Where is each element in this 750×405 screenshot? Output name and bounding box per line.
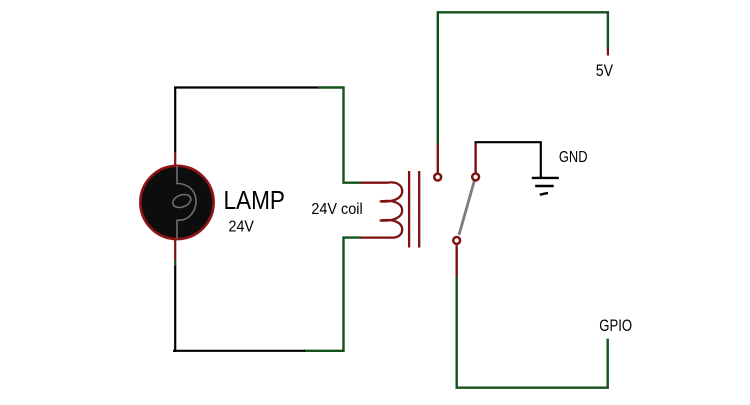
wire: red stub below lamp bbox=[174, 239, 176, 261]
switch pole contact (left, to 5V) bbox=[434, 174, 441, 181]
relay core line 1 bbox=[408, 171, 410, 248]
relay core line 2 bbox=[418, 171, 420, 248]
wire: left vertical below lamp (black) bbox=[174, 266, 176, 352]
lamp filament curl bbox=[171, 192, 193, 210]
svg-text:LAMP: LAMP bbox=[224, 185, 286, 215]
wire: red from switch right pole up bbox=[474, 143, 476, 173]
wire: lamp loop bottom horizontal (black) bbox=[173, 350, 305, 352]
ground bar 2 bbox=[535, 185, 554, 187]
wire: GPIO green run (down, across, up) bbox=[457, 277, 608, 388]
wire: left vertical above lamp (black) bbox=[174, 87, 176, 153]
svg-text:24V: 24V bbox=[229, 219, 255, 236]
wire: 5V green run (up, across, down) bbox=[438, 12, 608, 143]
wire: 5V red stub bbox=[607, 48, 609, 56]
wire: red from 5V down to switch left pole bbox=[437, 143, 439, 173]
lamp LA1 body bbox=[140, 166, 213, 239]
wire: coil bottom to loop bottom-right (green) bbox=[304, 238, 362, 351]
wire: lamp loop top horizontal (black) bbox=[174, 86, 319, 88]
switch bottom contact (to GPIO) bbox=[453, 237, 460, 244]
wire: red from switch bottom contact down bbox=[456, 245, 458, 277]
relay coil L1 (red scallops) bbox=[361, 182, 403, 237]
svg-text:GND: GND bbox=[559, 149, 588, 166]
lamp filament bbox=[177, 166, 196, 239]
svg-text:5V: 5V bbox=[596, 62, 613, 80]
svg-text:GPIO: GPIO bbox=[599, 317, 632, 335]
ground bar 3 (slanted) bbox=[540, 193, 548, 195]
wire: green segment below lamp bbox=[174, 260, 176, 266]
wire: lamp loop top-right + right vertical to coil top (green) bbox=[318, 88, 362, 183]
switch pole contact (right, to GND) bbox=[472, 173, 479, 180]
switch armature (gray) bbox=[459, 181, 474, 235]
wire: black to GND bbox=[475, 141, 541, 177]
svg-text:24V coil: 24V coil bbox=[311, 201, 362, 218]
ground bar 1 bbox=[532, 177, 559, 179]
wire: red stub above lamp bbox=[174, 152, 176, 166]
